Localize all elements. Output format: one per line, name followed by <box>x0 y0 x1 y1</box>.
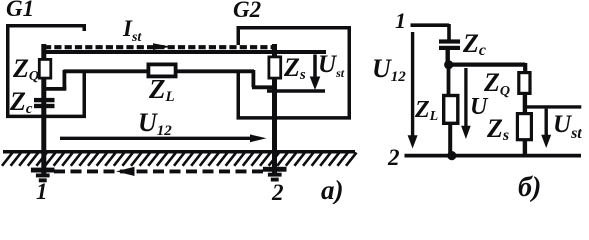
arrow U (b) <box>464 68 467 126</box>
box G1 <box>6 24 86 118</box>
arrow U_st (a) <box>313 55 317 79</box>
wire U_st bottom reference (a) <box>267 89 325 92</box>
resistor Z_L <box>148 64 175 76</box>
wire shield line <box>44 50 326 54</box>
svg-text:Zs: Zs <box>486 114 509 144</box>
svg-text:а): а) <box>321 175 344 204</box>
svg-text:G2: G2 <box>233 0 261 22</box>
ground hatch surface line <box>3 150 355 154</box>
ground hatch strokes <box>2 153 357 166</box>
svg-text:U: U <box>470 94 489 120</box>
resistor Z_S (b) <box>517 114 531 140</box>
svg-text:ZL: ZL <box>414 97 438 124</box>
wire ground conductor node 1 <box>41 44 46 176</box>
resistor Z_L (b) <box>444 96 458 124</box>
svg-text:Zc: Zc <box>462 29 486 59</box>
resistor Z_S <box>269 57 281 78</box>
wire dashed ground return <box>54 169 263 173</box>
svg-text:1: 1 <box>395 8 406 33</box>
svg-text:Ust: Ust <box>318 51 345 80</box>
wire node 2 (b) <box>405 154 582 158</box>
capacitor Z_C (b) <box>439 39 460 43</box>
junction node dot (b) <box>444 60 453 69</box>
junction dot node 2 (b) <box>447 151 456 160</box>
wire Z_S to node 2 (b) <box>523 140 527 156</box>
wire signal line <box>64 69 255 73</box>
svg-text:ZQ: ZQ <box>12 54 39 84</box>
svg-text:2: 2 <box>387 145 400 170</box>
bracket U_st (b) <box>527 105 581 108</box>
svg-text:Zc: Zc <box>9 87 33 117</box>
svg-text:Ust: Ust <box>553 111 582 142</box>
svg-text:U12: U12 <box>138 108 172 139</box>
wire ground conductor node 2 <box>272 44 277 176</box>
arrowhead I_st <box>153 43 171 50</box>
wire Z_Q to Z_S (b) <box>523 93 527 113</box>
earth electrode node 2 <box>263 167 287 182</box>
svg-text:2: 2 <box>271 180 284 204</box>
resistor Z_Q (b) <box>519 73 530 94</box>
svg-text:ZL: ZL <box>148 74 175 105</box>
arrow U_12 (a) <box>60 137 252 140</box>
svg-text:U12: U12 <box>372 54 406 85</box>
wire node 1 top (b) <box>411 24 450 40</box>
wire left jog <box>43 70 66 89</box>
arrowhead ground return <box>116 167 135 176</box>
svg-text:б): б) <box>518 172 541 203</box>
box G2 <box>237 26 352 120</box>
wire Z_L to node 2 (b) <box>448 123 452 156</box>
wire cap to junction (b) <box>446 50 450 62</box>
wire junction to Z_L (b) <box>447 66 451 95</box>
earth electrode node 1 <box>31 168 55 183</box>
svg-text:1: 1 <box>36 179 48 204</box>
resistor Z_Q <box>39 59 51 78</box>
wire junction to Z_Q branch (b) <box>450 63 525 71</box>
svg-text:Ist: Ist <box>122 16 142 45</box>
arrow U_st (b) <box>545 109 548 136</box>
svg-text:Zs: Zs <box>283 53 306 83</box>
wire dashed interference current line I_st <box>44 45 277 49</box>
capacitor Z_C <box>34 98 55 102</box>
svg-text:G1: G1 <box>6 0 34 21</box>
arrow U_12 (b) <box>411 32 414 136</box>
wire right jog <box>252 70 274 87</box>
